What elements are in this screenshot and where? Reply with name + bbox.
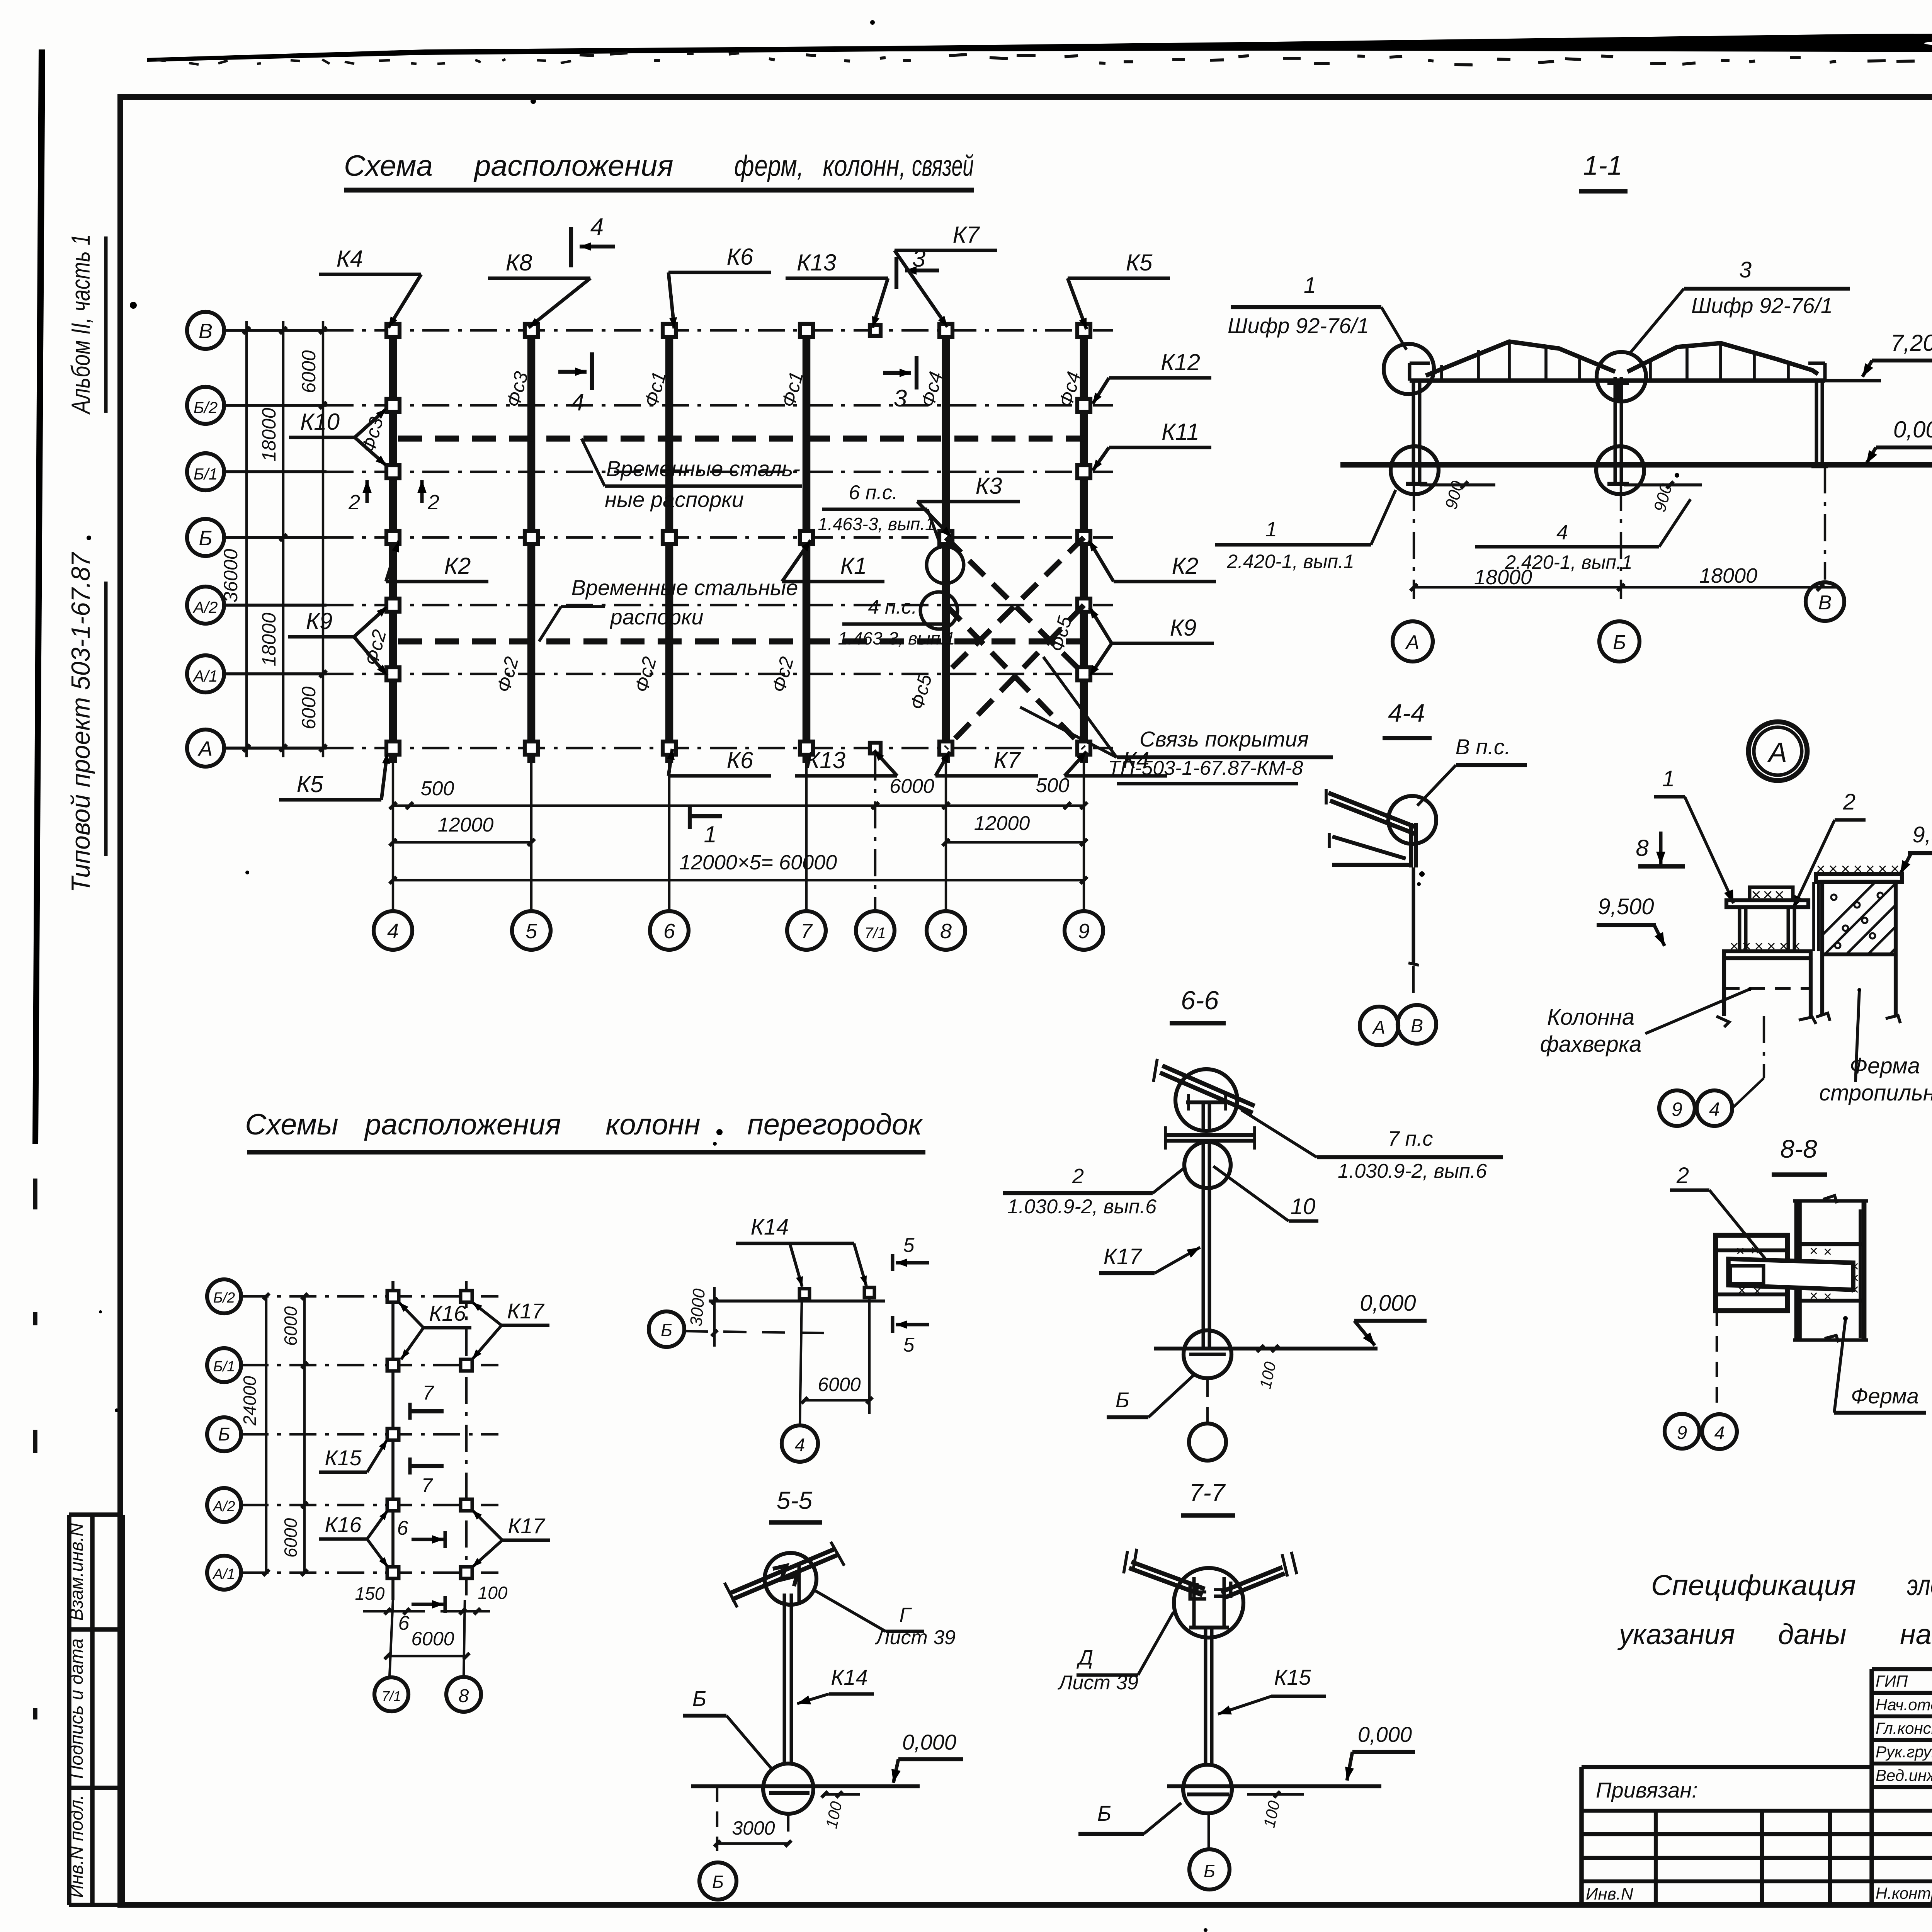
svg-text:3: 3 — [894, 385, 907, 412]
svg-text:колонн,: колонн, — [823, 150, 906, 182]
svg-text:Подпись и дата: Подпись и дата — [66, 1638, 87, 1779]
svg-text:9: 9 — [1677, 1423, 1687, 1443]
svg-text:5: 5 — [903, 1234, 915, 1257]
svg-text:7,200: 7,200 — [1891, 330, 1932, 356]
svg-text:×: × — [1878, 861, 1887, 878]
svg-text:ГИП: ГИП — [1876, 1672, 1908, 1690]
svg-text:9: 9 — [1672, 1099, 1682, 1120]
svg-text:Нач.отд: Нач.отд — [1876, 1696, 1932, 1714]
svg-text:связей: связей — [912, 150, 974, 182]
svg-text:1.463-3, вып.1: 1.463-3, вып.1 — [838, 628, 955, 648]
svg-text:7: 7 — [801, 920, 813, 943]
svg-text:8: 8 — [940, 920, 952, 943]
svg-text:Альбом II, часть 1: Альбом II, часть 1 — [66, 234, 95, 415]
svg-text:1: 1 — [1265, 518, 1277, 541]
svg-text:К9: К9 — [306, 608, 333, 634]
svg-text:Б: Б — [661, 1320, 672, 1340]
svg-text:1.030.9-2, вып.6: 1.030.9-2, вып.6 — [1338, 1160, 1487, 1182]
svg-text:6 п.с.: 6 п.с. — [849, 481, 898, 504]
svg-text:6000: 6000 — [818, 1374, 861, 1395]
svg-text:В: В — [1818, 592, 1832, 614]
svg-text:18000: 18000 — [258, 408, 280, 461]
svg-text:Связь покрытия: Связь покрытия — [1139, 727, 1309, 751]
svg-text:К6: К6 — [727, 244, 753, 270]
svg-text:10: 10 — [1291, 1194, 1316, 1219]
svg-text:4: 4 — [590, 214, 604, 240]
svg-text:×: × — [1738, 1282, 1746, 1299]
svg-text:3000: 3000 — [687, 1287, 709, 1327]
svg-text:2: 2 — [1072, 1165, 1084, 1188]
svg-text:К17: К17 — [507, 1299, 544, 1323]
svg-text:×: × — [1751, 885, 1761, 904]
svg-text:×: × — [1823, 1289, 1832, 1305]
svg-text:А: А — [1767, 737, 1787, 768]
svg-text:ТП-503-1-67.87-КМ-8: ТП-503-1-67.87-КМ-8 — [1108, 757, 1303, 779]
svg-text:×: × — [1751, 1242, 1759, 1259]
svg-text:Б/2: Б/2 — [194, 398, 218, 417]
svg-text:А: А — [1405, 631, 1420, 654]
svg-text:4-4: 4-4 — [1388, 699, 1425, 727]
svg-text:Типовой проект 503-1-67.87: Типовой проект 503-1-67.87 — [66, 552, 95, 893]
svg-text:2.420-1, вып.1: 2.420-1, вып.1 — [1226, 551, 1354, 572]
svg-text:×: × — [1779, 938, 1788, 955]
svg-text:6000: 6000 — [411, 1628, 454, 1650]
svg-text:1: 1 — [1304, 273, 1316, 298]
svg-text:Вед.инж: Вед.инж — [1876, 1766, 1932, 1784]
svg-text:А/2: А/2 — [212, 1498, 235, 1515]
svg-text:×: × — [1850, 1282, 1859, 1298]
svg-text:24000: 24000 — [240, 1376, 260, 1426]
svg-text:К17: К17 — [508, 1514, 545, 1538]
svg-text:К5: К5 — [297, 771, 323, 797]
svg-text:стропильная: стропильная — [1819, 1080, 1932, 1105]
svg-text:×: × — [1742, 938, 1751, 955]
svg-text:Ферма: Ферма — [1850, 1053, 1920, 1078]
svg-text:3: 3 — [1739, 257, 1752, 282]
svg-text:0,000: 0,000 — [902, 1730, 956, 1754]
svg-text:×: × — [1828, 861, 1837, 878]
svg-text:К5: К5 — [1126, 250, 1153, 276]
svg-text:7/1: 7/1 — [382, 1688, 401, 1704]
svg-text:0,000: 0,000 — [1358, 1722, 1412, 1747]
svg-text:100: 100 — [478, 1583, 508, 1603]
svg-text:Б/1: Б/1 — [194, 465, 218, 483]
svg-text:Привязан:: Привязан: — [1596, 1778, 1698, 1802]
svg-text:К16: К16 — [429, 1301, 466, 1325]
svg-text:6000: 6000 — [889, 775, 934, 798]
svg-text:К7: К7 — [953, 222, 980, 248]
svg-text:перегородок: перегородок — [747, 1108, 923, 1141]
svg-text:6000: 6000 — [281, 1518, 301, 1558]
svg-text:2: 2 — [427, 491, 439, 514]
svg-text:4: 4 — [571, 389, 584, 416]
svg-text:Спецификация: Спецификация — [1651, 1569, 1856, 1601]
svg-text:элементов: элементов — [1907, 1569, 1932, 1601]
svg-text:2.420-1, вып.1: 2.420-1, вып.1 — [1505, 551, 1632, 573]
svg-text:К14: К14 — [831, 1665, 867, 1689]
svg-text:150: 150 — [355, 1583, 385, 1604]
svg-text:А: А — [197, 737, 213, 760]
svg-text:А/1: А/1 — [192, 667, 218, 685]
svg-text:ферм,: ферм, — [734, 150, 804, 182]
svg-text:×: × — [1866, 861, 1874, 878]
svg-text:4 п.с.: 4 п.с. — [868, 596, 917, 618]
svg-text:Лист 39: Лист 39 — [875, 1626, 956, 1649]
svg-text:12000: 12000 — [974, 812, 1030, 835]
svg-text:3000: 3000 — [732, 1817, 775, 1839]
svg-text:Временные сталь-: Временные сталь- — [606, 456, 800, 481]
svg-text:6000: 6000 — [298, 350, 320, 393]
svg-text:К17: К17 — [1104, 1244, 1143, 1269]
svg-text:Временные стальные: Временные стальные — [571, 575, 798, 600]
svg-text:К8: К8 — [506, 250, 532, 276]
svg-text:Б: Б — [1097, 1801, 1111, 1825]
svg-text:6: 6 — [398, 1612, 410, 1634]
svg-text:А: А — [1372, 1017, 1385, 1038]
svg-text:6: 6 — [397, 1517, 408, 1539]
svg-text:К7: К7 — [994, 747, 1021, 773]
svg-text:Б/2: Б/2 — [213, 1290, 235, 1306]
svg-text:×: × — [1853, 861, 1862, 878]
svg-text:указания: указания — [1617, 1618, 1735, 1650]
svg-text:0,000: 0,000 — [1893, 417, 1932, 442]
svg-text:×: × — [1730, 938, 1738, 955]
svg-text:К6: К6 — [727, 747, 753, 773]
svg-text:2: 2 — [1676, 1163, 1689, 1188]
svg-text:2: 2 — [348, 491, 360, 514]
svg-text:Гл.констр.: Гл.констр. — [1876, 1719, 1932, 1737]
svg-text:Б: Б — [218, 1424, 230, 1445]
svg-text:Б/1: Б/1 — [213, 1359, 235, 1375]
svg-text:К3: К3 — [976, 473, 1002, 499]
svg-text:К1: К1 — [840, 553, 867, 579]
svg-text:Шифр 92-76/1: Шифр 92-76/1 — [1691, 293, 1833, 318]
svg-text:6-6: 6-6 — [1181, 986, 1219, 1015]
svg-text:ные распорки: ные распорки — [605, 487, 744, 512]
svg-text:Б: Б — [1116, 1388, 1129, 1412]
svg-text:К4: К4 — [337, 246, 363, 272]
svg-text:К12: К12 — [1161, 349, 1200, 375]
svg-text:К13: К13 — [806, 747, 845, 773]
svg-text:А/2: А/2 — [192, 598, 218, 616]
svg-text:7-7: 7-7 — [1189, 1479, 1226, 1507]
svg-text:К2: К2 — [1172, 553, 1199, 579]
svg-text:8: 8 — [459, 1686, 469, 1706]
svg-text:даны: даны — [1778, 1618, 1846, 1650]
svg-text:Д: Д — [1077, 1646, 1093, 1669]
svg-text:К16: К16 — [325, 1512, 362, 1537]
svg-text:5: 5 — [903, 1334, 915, 1356]
svg-text:36000: 36000 — [220, 549, 241, 602]
svg-text:Б: Б — [692, 1686, 706, 1711]
svg-text:12000×5= 60000: 12000×5= 60000 — [679, 851, 837, 874]
svg-text:фахверка: фахверка — [1540, 1032, 1642, 1057]
svg-text:К10: К10 — [300, 409, 340, 435]
svg-text:колонн: колонн — [605, 1108, 700, 1141]
svg-text:×: × — [1810, 1243, 1818, 1259]
svg-text:распорки: распорки — [610, 605, 704, 629]
svg-text:×: × — [1774, 885, 1784, 904]
svg-text:Рук.груп.: Рук.груп. — [1876, 1743, 1932, 1761]
svg-text:9: 9 — [1078, 920, 1090, 943]
svg-text:7 п.с: 7 п.с — [1388, 1127, 1433, 1150]
svg-text:К9: К9 — [1170, 615, 1197, 641]
svg-text:7: 7 — [422, 1475, 434, 1497]
svg-text:5: 5 — [526, 920, 537, 943]
svg-text:К14: К14 — [751, 1214, 789, 1240]
svg-text:К15: К15 — [325, 1446, 362, 1470]
svg-text:В: В — [199, 320, 213, 343]
svg-text:расположения: расположения — [364, 1108, 561, 1141]
svg-text:18000: 18000 — [258, 612, 280, 666]
svg-text:К13: К13 — [797, 250, 836, 276]
svg-text:Б: Б — [1204, 1861, 1215, 1881]
svg-text:×: × — [1754, 938, 1763, 955]
svg-text:В п.с.: В п.с. — [1456, 735, 1511, 759]
svg-text:×: × — [1810, 1288, 1818, 1304]
svg-text:4: 4 — [1556, 521, 1568, 544]
svg-text:4: 4 — [795, 1435, 805, 1456]
svg-text:×: × — [1791, 938, 1800, 955]
svg-text:К11: К11 — [1162, 419, 1199, 445]
svg-text:8-8: 8-8 — [1780, 1134, 1817, 1163]
svg-text:на: на — [1900, 1618, 1932, 1650]
svg-text:500: 500 — [1036, 774, 1070, 797]
svg-text:×: × — [1767, 938, 1776, 955]
svg-text:Инв.N: Инв.N — [1586, 1884, 1633, 1903]
svg-text:Колонна: Колонна — [1547, 1005, 1634, 1030]
svg-text:6: 6 — [663, 920, 675, 943]
svg-text:1: 1 — [1662, 766, 1675, 791]
svg-text:Б: Б — [1613, 631, 1626, 654]
svg-text:×: × — [1890, 861, 1899, 878]
svg-text:К2: К2 — [444, 553, 471, 579]
svg-text:×: × — [1816, 861, 1825, 878]
svg-text:К15: К15 — [1274, 1665, 1311, 1689]
svg-text:Шифр 92-76/1: Шифр 92-76/1 — [1228, 313, 1369, 338]
svg-text:В: В — [1411, 1016, 1423, 1036]
svg-text:×: × — [1753, 1283, 1762, 1299]
svg-text:4: 4 — [1714, 1423, 1725, 1444]
svg-text:18000: 18000 — [1699, 564, 1757, 587]
svg-text:×: × — [1841, 861, 1850, 878]
svg-text:Г: Г — [899, 1604, 912, 1627]
svg-text:Инв.N подл.: Инв.N подл. — [66, 1794, 87, 1898]
svg-text:1.030.9-2, вып.6: 1.030.9-2, вып.6 — [1007, 1196, 1156, 1218]
svg-text:5-5: 5-5 — [777, 1486, 813, 1514]
svg-text:Н.контр: Н.контр — [1876, 1884, 1932, 1902]
svg-text:Б: Б — [712, 1872, 724, 1892]
svg-text:1-1: 1-1 — [1583, 150, 1622, 180]
svg-text:2: 2 — [1843, 789, 1855, 815]
svg-text:×: × — [1736, 1243, 1745, 1259]
svg-text:500: 500 — [421, 777, 454, 800]
svg-text:×: × — [1823, 1244, 1832, 1260]
svg-text:12000: 12000 — [438, 814, 494, 836]
svg-text:1: 1 — [704, 821, 716, 847]
svg-text:7/1: 7/1 — [864, 925, 886, 942]
svg-text:А/1: А/1 — [212, 1566, 235, 1582]
svg-text:0,000: 0,000 — [1360, 1291, 1416, 1316]
svg-text:Ферма: Ферма — [1851, 1384, 1919, 1408]
svg-text:Схемы: Схемы — [245, 1108, 338, 1141]
svg-text:Б: Б — [199, 527, 212, 550]
svg-text:6000: 6000 — [298, 686, 320, 729]
svg-text:×: × — [1763, 885, 1773, 904]
svg-text:4: 4 — [1709, 1099, 1720, 1120]
svg-text:4: 4 — [387, 920, 399, 943]
svg-text:Взам.инв.N: Взам.инв.N — [66, 1523, 87, 1621]
svg-text:7: 7 — [423, 1382, 435, 1404]
svg-text:1.463-3, вып.1: 1.463-3, вып.1 — [818, 514, 935, 534]
svg-text:8: 8 — [1636, 835, 1649, 861]
svg-text:Схема: Схема — [344, 150, 433, 182]
svg-text:6000: 6000 — [281, 1306, 301, 1346]
svg-text:9,910: 9,910 — [1912, 822, 1932, 847]
svg-text:расположения: расположения — [473, 150, 673, 182]
svg-text:9,500: 9,500 — [1598, 894, 1654, 919]
